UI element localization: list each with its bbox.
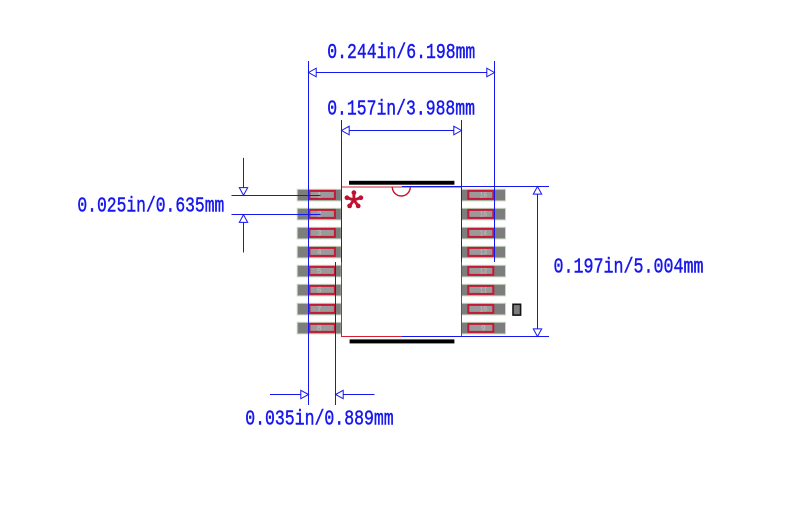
pin outline 11 <box>468 286 493 294</box>
pin outline 10 <box>468 305 493 313</box>
wire: left extension line x=308.9 <box>308 61 310 405</box>
pin outline 1 <box>309 191 335 199</box>
pad 13 (right) <box>461 246 505 258</box>
svg-text:0.157in/3.988mm: 0.157in/3.988mm <box>327 99 475 122</box>
wire: body-right extension line x=461.3 <box>461 120 463 262</box>
pin outline 14 <box>468 229 493 237</box>
svg-text:0.197in/5.004mm: 0.197in/5.004mm <box>554 256 704 279</box>
wire: body-width dimension line <box>342 126 462 135</box>
svg-text:9: 9 <box>481 325 486 334</box>
pin-1 index notch arc <box>392 187 410 196</box>
svg-text:16: 16 <box>480 192 487 201</box>
svg-text:7: 7 <box>317 306 322 315</box>
wire: body-left extension line x=341.6 <box>341 120 343 262</box>
wire: right extension line x=494.3 <box>494 61 496 262</box>
pad 14 (right) <box>461 227 505 239</box>
pin outline 4 <box>309 248 335 256</box>
pin outline 13 <box>468 248 493 256</box>
pad 7 (left) <box>297 303 341 315</box>
pad 12 (right) <box>461 265 505 277</box>
svg-text:5: 5 <box>317 268 322 277</box>
pad 9 (right) <box>461 322 505 334</box>
wire: overall-width dimension line <box>309 68 495 77</box>
svg-text:15: 15 <box>480 211 487 220</box>
svg-text:8: 8 <box>317 325 322 334</box>
pad 11 (right) <box>461 284 505 296</box>
pin outline 8 <box>309 324 335 332</box>
svg-text:6: 6 <box>317 287 322 296</box>
package body outline <box>342 187 462 337</box>
pad 3 (left) <box>297 227 341 239</box>
pad 2 (left) <box>297 208 341 220</box>
svg-text:13: 13 <box>480 249 487 258</box>
svg-text:4: 4 <box>317 249 322 258</box>
pin outline 16 <box>468 191 493 199</box>
pin-1 marker asterisk <box>345 190 364 208</box>
wire: pitch dimension lines <box>232 158 321 253</box>
pad 8 (left) <box>297 322 341 334</box>
svg-text:0.025in/0.635mm: 0.025in/0.635mm <box>77 195 224 218</box>
pad 15 (right) <box>461 208 505 220</box>
pin outline 9 <box>468 324 493 332</box>
svg-text:0.244in/6.198mm: 0.244in/6.198mm <box>327 42 475 65</box>
pad 6 (left) <box>297 284 341 296</box>
orientation chip marker <box>513 304 521 315</box>
svg-text:0.035in/0.889mm: 0.035in/0.889mm <box>245 409 394 432</box>
svg-text:10: 10 <box>480 306 487 315</box>
wire: pin-edge extension line x=335.8 <box>335 262 337 405</box>
pin outline 7 <box>309 305 335 313</box>
pin outline 3 <box>309 229 335 237</box>
pad 10 (right) <box>461 303 505 315</box>
pad 16 (right) <box>461 189 505 201</box>
wire: body-height dimension <box>402 187 549 337</box>
svg-text:11: 11 <box>480 287 487 296</box>
silkscreen bottom bar <box>350 339 455 343</box>
svg-text:3: 3 <box>317 230 322 239</box>
silkscreen top bar <box>349 181 454 185</box>
svg-text:12: 12 <box>480 268 487 277</box>
pad 1 (left) <box>297 189 341 201</box>
pin outline 12 <box>468 267 493 275</box>
pin outline 15 <box>468 210 493 218</box>
pin outline 6 <box>309 286 335 294</box>
pad 4 (left) <box>297 246 341 258</box>
wire: pin-length dimension <box>270 390 375 398</box>
pad 5 (left) <box>297 265 341 277</box>
pin outline 5 <box>309 267 335 275</box>
svg-text:14: 14 <box>480 230 487 239</box>
pin outline 2 <box>309 210 335 218</box>
